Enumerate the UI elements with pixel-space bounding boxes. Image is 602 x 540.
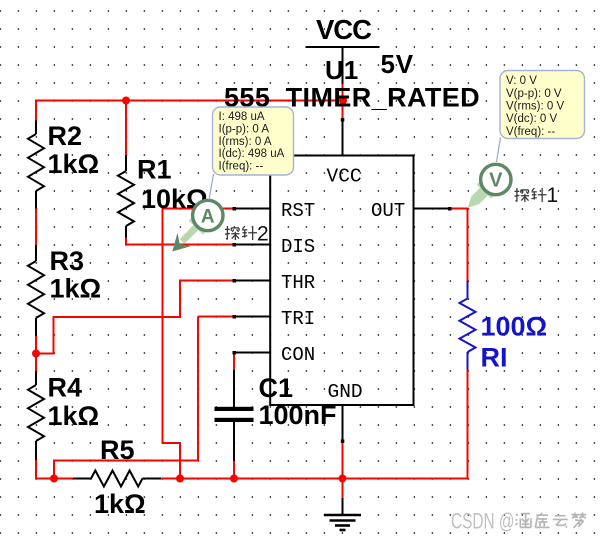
svg-text:VCC: VCC <box>327 166 362 188</box>
svg-text:R4: R4 <box>48 373 83 403</box>
svg-text:CON: CON <box>281 344 315 366</box>
svg-text:1: 1 <box>547 184 559 207</box>
svg-text:RI: RI <box>481 343 508 373</box>
svg-text:DIS: DIS <box>281 236 315 258</box>
svg-text:100nF: 100nF <box>259 400 337 430</box>
svg-text:I(rms): 0 A: I(rms): 0 A <box>219 136 272 148</box>
svg-text:100Ω: 100Ω <box>481 312 548 342</box>
svg-text:TRI: TRI <box>281 308 315 330</box>
svg-text:1kΩ: 1kΩ <box>48 401 100 431</box>
svg-text:VCC: VCC <box>316 14 372 45</box>
svg-text:1kΩ: 1kΩ <box>48 149 100 179</box>
svg-text:V(rms): 0 V: V(rms): 0 V <box>506 101 564 113</box>
svg-text:A: A <box>201 206 215 227</box>
svg-text:C1: C1 <box>259 373 294 403</box>
svg-text:V(freq): --: V(freq): -- <box>506 126 555 138</box>
svg-text:OUT: OUT <box>371 200 405 222</box>
svg-text:R2: R2 <box>48 121 83 151</box>
svg-text:R1: R1 <box>137 155 172 185</box>
svg-text:THR: THR <box>281 272 315 294</box>
svg-text:CSDN @: CSDN @ <box>451 510 514 534</box>
svg-text:I(freq): --: I(freq): -- <box>219 161 264 173</box>
svg-text:1kΩ: 1kΩ <box>94 489 146 519</box>
svg-text:I: 498 uA: I: 498 uA <box>219 111 265 123</box>
svg-text:V(dc): 0 V: V(dc): 0 V <box>506 113 557 125</box>
svg-text:U1: U1 <box>325 55 358 85</box>
svg-text:R5: R5 <box>100 435 135 465</box>
svg-text:I(dc): 498 uA: I(dc): 498 uA <box>219 148 285 160</box>
svg-text:V: V <box>489 170 503 192</box>
svg-text:1kΩ: 1kΩ <box>50 274 102 304</box>
svg-text:V: 0 V: V: 0 V <box>506 75 537 87</box>
svg-text:V(p-p): 0 V: V(p-p): 0 V <box>506 88 562 100</box>
svg-text:R3: R3 <box>50 246 85 276</box>
svg-text:2: 2 <box>257 223 269 246</box>
svg-text:RST: RST <box>281 200 315 222</box>
svg-text:5V: 5V <box>381 49 414 79</box>
svg-text:I(p-p): 0 A: I(p-p): 0 A <box>219 123 270 135</box>
